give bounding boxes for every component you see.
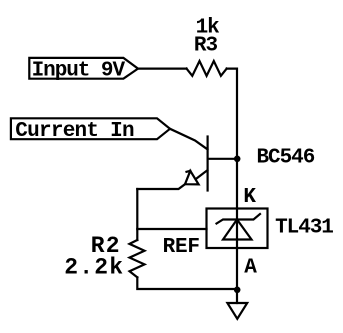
resistor R2 <box>130 240 145 277</box>
svg-text:BC546: BC546 <box>257 146 315 169</box>
svg-text:2.2k: 2.2k <box>64 255 124 281</box>
svg-text:Input 9V: Input 9V <box>32 60 126 83</box>
transistor Q1 base lead wire <box>208 158 237 160</box>
node junction dot bottom <box>234 287 241 294</box>
svg-text:TL431: TL431 <box>275 217 333 240</box>
svg-text:K: K <box>243 186 256 209</box>
svg-text:A: A <box>244 257 257 280</box>
wire REF line <box>137 228 206 230</box>
transistor Q1 emitter arrow <box>185 171 199 185</box>
resistor R3 <box>187 61 227 76</box>
op-amp U1 TL431 box <box>207 209 268 249</box>
svg-text:R3: R3 <box>194 35 218 58</box>
svg-text:Current In: Current In <box>15 120 134 143</box>
node Input 9V flag outline <box>29 58 138 79</box>
node junction dot base <box>234 156 241 163</box>
transistor Q1 collector wire <box>170 129 207 150</box>
transistor Q1 emitter lead <box>196 170 207 178</box>
wire R2 bottom <box>137 277 237 289</box>
ground <box>236 289 238 303</box>
wire left rail down <box>136 189 138 240</box>
svg-text:REF: REF <box>163 236 200 259</box>
op-amp U1 TL431 triangle <box>223 220 252 240</box>
wire input flag to R3 <box>138 67 187 69</box>
transistor Q1 emitter arrow tick <box>187 171 191 172</box>
op-amp U1 TL431 cathode bar <box>217 214 261 224</box>
wire emitter to left rail <box>137 184 185 189</box>
wire R3 to main vertical node <box>227 69 237 248</box>
transistor Q1 base bar <box>207 137 209 191</box>
node Current In flag outline <box>11 118 170 139</box>
wire TL431 anode down <box>236 248 238 289</box>
